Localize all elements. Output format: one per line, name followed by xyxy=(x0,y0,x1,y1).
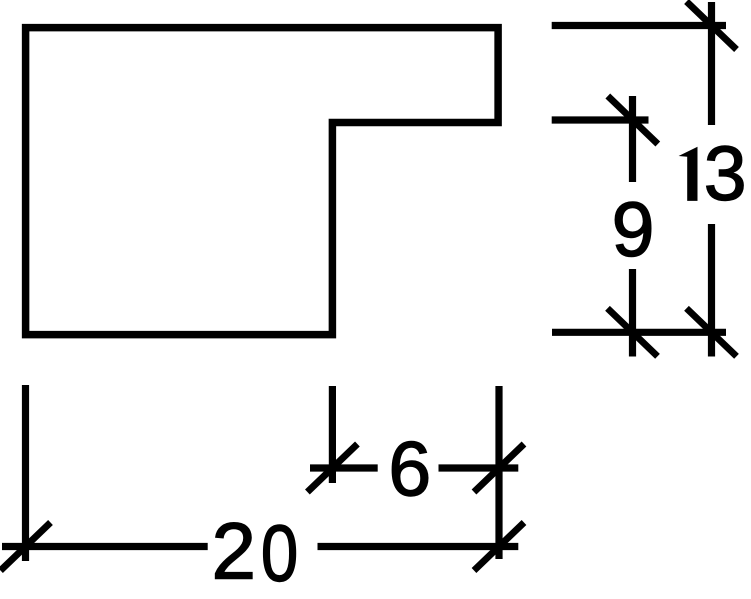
dimension line 9 lower segment xyxy=(629,269,636,357)
svg-text:3: 3 xyxy=(704,131,747,217)
tick mark bottom of 9 xyxy=(608,308,658,356)
tick mark top of 13 xyxy=(687,2,737,50)
dimension line 6 right segment xyxy=(439,464,519,471)
svg-text:6: 6 xyxy=(388,427,431,513)
tick mark right of 6 xyxy=(474,444,524,492)
dimension line 20 left segment xyxy=(2,543,208,550)
dimension text 13 : digit 1 drawn as path xyxy=(679,147,698,201)
extension line bottom right vertical (for 6 and 20) xyxy=(495,386,502,559)
dimension line 13 upper segment xyxy=(708,2,715,125)
svg-text:9: 9 xyxy=(612,187,655,273)
tick mark right of 20 xyxy=(474,523,524,571)
extension line top right (for 13) xyxy=(552,22,726,29)
extension line bottom middle (for 6) xyxy=(329,386,336,483)
tick mark left of 20 xyxy=(1,523,51,571)
svg-text:0: 0 xyxy=(261,508,298,598)
dimension line 9 upper segment xyxy=(629,96,636,182)
dimension line 6 left segment xyxy=(310,464,378,471)
extension line bottom left (for 20) xyxy=(22,385,29,561)
svg-text:2: 2 xyxy=(212,507,257,596)
dimension line 13 lower segment xyxy=(708,224,715,357)
extension line bottom right (for 9 and 13) xyxy=(552,329,726,336)
tick mark bottom of 13 xyxy=(687,308,737,356)
profile outline (stepped moulding cross-section) xyxy=(26,28,499,335)
extension line step right (for 9) xyxy=(552,116,649,123)
dimension line 20 right segment xyxy=(318,543,519,550)
tick mark left of 6 xyxy=(307,444,357,492)
tick mark top of 9 xyxy=(608,96,658,144)
